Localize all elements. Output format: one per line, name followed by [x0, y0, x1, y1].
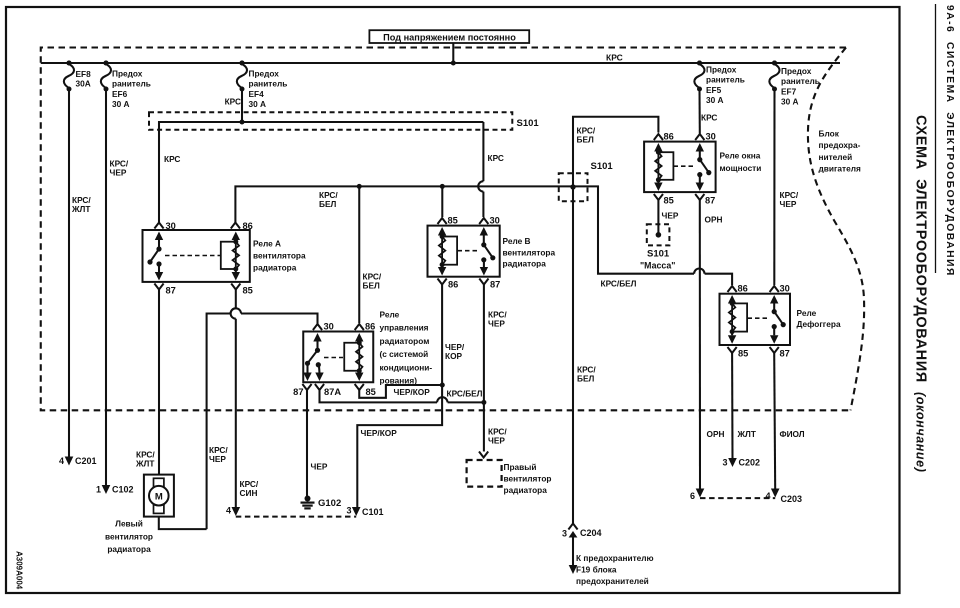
label КРС/БЕЛ at C204 [577, 365, 596, 384]
svg-text:ЖЛТ: ЖЛТ [71, 204, 90, 214]
fuse EF6 30A [101, 61, 111, 92]
svg-text:КРС: КРС [164, 154, 180, 164]
label КРС/СИН [240, 479, 259, 498]
wire ЧЕР window relay pin 85 to S101 масса [657, 200, 659, 235]
label КРС/ЧЕР [110, 159, 129, 178]
svg-text:ЧЕР/КОР: ЧЕР/КОР [394, 387, 431, 397]
svg-text:30: 30 [166, 221, 176, 231]
relay A pin labels [166, 221, 253, 296]
svg-text:С203: С203 [781, 494, 803, 504]
label КРС at EF5 wire [701, 113, 717, 123]
wire КРС/ЧЕР from EF6 to C102 [105, 89, 107, 485]
svg-text:СХЕМА ЭЛЕКТРООБОРУДОВАНИЯ (о: СХЕМА ЭЛЕКТРООБОРУДОВАНИЯ (окончание) [913, 115, 929, 473]
svg-text:КРС: КРС [606, 53, 623, 63]
svg-text:Реле: Реле [797, 308, 817, 318]
splice S101 Масса (dashed square) [647, 224, 670, 245]
label КРС at relay A [164, 154, 180, 164]
svg-text:Предох: Предох [781, 66, 812, 76]
label КРС/БЕЛ at defogger [601, 279, 637, 289]
svg-text:S101: S101 [591, 161, 614, 172]
fuse EF4 30A [237, 61, 247, 92]
svg-text:С204: С204 [580, 528, 602, 538]
svg-text:КОР: КОР [445, 351, 463, 361]
wire КРС/ЖЛТ relay A pin 87 to motor [158, 290, 160, 476]
wire ЧЕР from упр relay pin 87 to ground [306, 390, 308, 497]
svg-text:БЕЛ: БЕЛ [577, 373, 594, 383]
svg-text:4: 4 [59, 456, 64, 466]
svg-text:EF5: EF5 [706, 85, 722, 95]
label S101 [517, 118, 540, 129]
svg-text:управления: управления [380, 323, 429, 333]
connector C204 pin 3 [562, 524, 602, 566]
svg-text:ОРН: ОРН [707, 429, 725, 439]
connector C203 dashed line [700, 497, 775, 499]
svg-text:ранитель: ранитель [706, 75, 745, 85]
label ЖЛТ [737, 429, 756, 439]
junction at S101 square [570, 184, 575, 189]
connector C203 pin 4 [765, 489, 802, 505]
svg-text:ЧЕР: ЧЕР [110, 167, 127, 177]
splice S101 square (dashed) [559, 173, 588, 201]
svg-text:4: 4 [765, 491, 770, 501]
svg-text:ЧЕР: ЧЕР [662, 211, 679, 221]
svg-text:ОРН: ОРН [705, 215, 723, 225]
label ЧЕР/КОР at relay B [445, 342, 465, 361]
label Предохранитель EF5 30 А [706, 65, 745, 106]
label "Левый вентилятор радиатора" [105, 519, 153, 555]
label КРС/ЧЕР lower [488, 427, 507, 446]
svg-text:85: 85 [448, 216, 458, 226]
svg-text:ЧЕР: ЧЕР [209, 454, 226, 464]
svg-text:С202: С202 [739, 458, 761, 468]
svg-text:Предох: Предох [706, 65, 737, 75]
label EF8 30A [76, 69, 92, 88]
bus wire KPC (battery feed) [41, 62, 840, 64]
svg-text:Под напряжением постоянно: Под напряжением постоянно [383, 33, 516, 43]
svg-text:3: 3 [562, 529, 567, 539]
svg-text:30: 30 [490, 216, 500, 226]
label S101 at splice square [591, 161, 614, 172]
connector C102 pin 1 [96, 485, 134, 495]
power window relay (Реле окна мощности) [644, 134, 716, 200]
svg-text:Дефоггера: Дефоггера [797, 319, 841, 329]
svg-text:радиатора: радиатора [107, 544, 151, 554]
fuse EF7 30A [769, 61, 779, 92]
label КРС at relay B [488, 153, 504, 163]
window relay pin labels [664, 132, 716, 206]
label КРС/ЧЕР at EF7 wire [780, 190, 799, 209]
label "Реле А вентилятора радиатора" [253, 239, 306, 273]
fuse EF5 30A [694, 61, 704, 92]
svg-text:радиатора: радиатора [503, 259, 547, 269]
label ЧЕР at G102 [311, 462, 328, 472]
svg-text:СИН: СИН [240, 488, 258, 498]
wire ЧЕР/КОР relay B pin 86 down [357, 285, 445, 508]
label КРС/ЖЛТ [71, 195, 91, 214]
svg-text:предохра-: предохра- [819, 140, 861, 150]
svg-text:ранитель: ранитель [781, 76, 820, 86]
off-page arrow to fuse F19 [569, 565, 578, 574]
svg-text:кондициони-: кондициони- [380, 362, 433, 372]
label КРС/БЕЛ at упр 86 [363, 272, 382, 291]
label "Реле окна мощности" [720, 151, 762, 173]
svg-text:предохранителей: предохранителей [576, 576, 649, 586]
wire КРС/БЕЛ to defogger relay pin 86 [573, 186, 732, 285]
svg-text:ЧЕР: ЧЕР [780, 199, 797, 209]
splice S101 dashed box [149, 112, 512, 130]
svg-text:К предохранителю: К предохранителю [576, 553, 654, 563]
svg-text:85: 85 [664, 196, 674, 206]
control relay pin labels [293, 322, 376, 398]
label "Реле управления радиатором (с системой кондиционирования)" [380, 310, 433, 386]
label ОРН lower [707, 429, 725, 439]
label КРС at EF4 [225, 97, 241, 107]
relay B (Реле В вентилятора радиатора) [428, 218, 500, 285]
svg-text:Реле А: Реле А [253, 239, 281, 249]
control relay (Реле управления радиатором) [302, 324, 373, 390]
fuse EF8 30A [64, 61, 74, 92]
svg-text:4: 4 [226, 506, 231, 516]
label КРС/ЧЕР at riser [209, 445, 228, 464]
svg-text:Правый: Правый [504, 462, 537, 472]
svg-text:87: 87 [705, 196, 715, 206]
svg-text:86: 86 [243, 221, 253, 231]
page title "СХЕМА ЭЛЕКТРООБОРУДОВАНИЯ (окончание)" [913, 115, 929, 473]
svg-text:ФИОЛ: ФИОЛ [780, 429, 805, 439]
connector C101 pin 3 [346, 506, 383, 518]
label КРС/БЕЛ at window relay [577, 126, 596, 145]
wire КРС to relay A pin 30 [158, 121, 160, 223]
svg-text:87: 87 [166, 286, 176, 296]
figure number A309A004 [15, 551, 24, 590]
wire ОРН window relay pin 87 down [699, 200, 701, 490]
svg-text:ЧЕР: ЧЕР [488, 435, 505, 445]
svg-text:86: 86 [448, 280, 458, 290]
svg-text:БЕЛ: БЕЛ [363, 280, 380, 290]
svg-text:КРС/БЕЛ: КРС/БЕЛ [601, 279, 637, 289]
svg-text:87: 87 [293, 387, 303, 397]
wire КРС/СИН relay A pin 85 to C101 [231, 290, 236, 508]
svg-text:30 А: 30 А [112, 99, 130, 109]
svg-text:30: 30 [324, 322, 334, 332]
svg-text:ЖЛТ: ЖЛТ [737, 429, 756, 439]
svg-text:нителей: нителей [819, 152, 853, 162]
svg-text:КРС: КРС [701, 113, 717, 123]
label Предохранитель EF4 30 А [249, 69, 288, 110]
svg-text:ЧЕР: ЧЕР [311, 462, 328, 472]
label ОРН upper [705, 215, 723, 225]
svg-text:С102: С102 [112, 485, 134, 495]
splice S101 internal bus wire [159, 120, 483, 125]
svg-text:30: 30 [780, 284, 790, 294]
label КРС/БЕЛ on horizontal wire [319, 190, 338, 209]
label ЧЕР [662, 211, 679, 221]
label "К предохранителю F19 блока предохранителей" [576, 553, 654, 586]
defogger relay (Реле Дефоггера) [720, 286, 791, 353]
wire from note box to bus [451, 43, 456, 66]
svg-text:F19 блока: F19 блока [576, 565, 617, 575]
connector C202/C203 pin 6 [690, 489, 704, 502]
svg-text:БЕЛ: БЕЛ [577, 134, 594, 144]
svg-text:ЧЕР/КОР: ЧЕР/КОР [361, 428, 398, 438]
svg-text:рования): рования) [380, 376, 418, 386]
wire motor to КРС/ЧЕР riser [159, 517, 207, 530]
svg-text:ЧЕР: ЧЕР [488, 318, 505, 328]
wire КРС from EF4 to splice S101 [241, 89, 243, 122]
ground G102 [301, 496, 342, 510]
svg-text:М: М [155, 492, 163, 503]
svg-text:вентилятора: вентилятора [253, 251, 306, 261]
svg-text:87: 87 [780, 349, 790, 359]
svg-text:Предох: Предох [112, 69, 143, 79]
svg-text:радиатора: радиатора [253, 263, 297, 273]
wire КРС/БЕЛ down to упр relay pin 86 [358, 186, 360, 323]
wire КРС/ЧЕР relay B pin 87 to right fan [483, 285, 485, 452]
svg-text:87: 87 [490, 280, 500, 290]
pin chevron into right fan [479, 452, 488, 458]
connector C202 pin 3 [722, 458, 760, 468]
svg-text:86: 86 [738, 284, 748, 294]
svg-text:мощности: мощности [720, 163, 762, 173]
svg-text:ранитель: ранитель [112, 79, 151, 89]
svg-text:EF4: EF4 [249, 89, 265, 99]
label Предохранитель EF6 30 А [112, 69, 151, 110]
svg-text:Левый: Левый [115, 519, 143, 529]
label КРС/ЖЛТ at motor [135, 450, 155, 469]
svg-text:30А: 30А [76, 78, 91, 88]
connector C201 pin 4 [59, 456, 97, 466]
svg-text:вентилятора: вентилятора [503, 247, 556, 257]
svg-text:S101: S101 [517, 118, 540, 129]
svg-text:С101: С101 [362, 507, 384, 517]
svg-text:вентилятор: вентилятор [504, 474, 552, 484]
right radiator fan (dashed box) [467, 460, 502, 487]
wire КРС to relay B pin 30 [478, 122, 483, 217]
svg-text:КРС: КРС [488, 153, 504, 163]
svg-text:86: 86 [365, 322, 375, 332]
svg-text:30 А: 30 А [249, 99, 267, 109]
wire ФИОЛ defogger pin 87 to C203 [774, 353, 775, 490]
svg-text:EF6: EF6 [112, 89, 128, 99]
label "Блок предохранителей двигателя" [819, 129, 861, 174]
wire КРС/ЖЛТ from EF8 to C201 [68, 89, 70, 457]
svg-text:ранитель: ранитель [249, 79, 288, 89]
svg-text:Предох: Предох [249, 69, 280, 79]
wire КРС/ЧЕР riser to упр relay pin 30 [207, 308, 318, 529]
svg-text:9А-6 СИСТЕМА ЭЛЕКТРООБОРУДОВ: 9А-6 СИСТЕМА ЭЛЕКТРООБОРУДОВАНИЯ [944, 5, 955, 277]
svg-text:1: 1 [96, 485, 101, 495]
svg-text:Реле В: Реле В [503, 236, 531, 246]
svg-text:G102: G102 [318, 498, 341, 509]
wire КРС/БЕЛ down to C204 [572, 187, 574, 524]
svg-text:"Масса": "Масса" [640, 261, 675, 271]
svg-text:С201: С201 [75, 456, 97, 466]
defogger relay pin labels [738, 284, 790, 359]
svg-text:S101: S101 [647, 249, 670, 260]
svg-text:радиатора: радиатора [504, 485, 548, 495]
svg-text:КРС: КРС [225, 97, 241, 107]
label S101 "Масса" [640, 249, 675, 271]
svg-text:85: 85 [243, 286, 253, 296]
svg-text:30: 30 [706, 132, 716, 142]
junction dots on bus [67, 61, 778, 66]
connector C101 dashed line [236, 516, 356, 518]
svg-text:EF7: EF7 [781, 86, 797, 96]
engine fuse block boundary (dashed) [41, 48, 864, 411]
note box "Под напряжением постоянно" [369, 30, 529, 43]
label ЧЕР/КОР above C101 [361, 428, 398, 438]
label ЧЕР/КОР at упр 85 [394, 387, 431, 397]
wire КРС/БЕЛ to window relay pin 86 [573, 117, 658, 187]
label КРС/БЕЛ near hop [447, 389, 483, 399]
svg-text:6: 6 [690, 491, 695, 501]
svg-text:A309A004: A309A004 [15, 551, 24, 590]
wire КРС/ЧЕР from EF7 to defogger pin 30 [773, 90, 775, 285]
svg-text:Блок: Блок [819, 129, 840, 139]
relay B pin labels [448, 216, 501, 290]
wire down to relay B pin 85 [441, 186, 443, 217]
page header "9A-6 СИСТЕМА ЭЛЕКТРООБОРУДОВАНИЯ" [936, 4, 956, 277]
wire from упр relay pin 87A to КРС/ЧЕР wire [320, 390, 487, 405]
svg-text:85: 85 [738, 349, 748, 359]
wire КРС/БЕЛ horizontal [235, 184, 573, 223]
svg-text:30 А: 30 А [706, 95, 724, 105]
wire ЖЛТ defogger pin 85 to C202 [731, 353, 733, 458]
svg-text:Реле окна: Реле окна [720, 151, 761, 161]
label КРС/ЧЕР upper [488, 310, 507, 329]
svg-text:86: 86 [664, 132, 674, 142]
svg-text:87А: 87А [324, 387, 341, 397]
svg-text:КРС/БЕЛ: КРС/БЕЛ [447, 389, 483, 399]
svg-text:85: 85 [366, 387, 376, 397]
relay A (Реле А вентилятора радиатора) [143, 223, 250, 290]
label "Реле В вентилятора радиатора" [503, 236, 556, 269]
svg-text:Реле: Реле [380, 310, 400, 320]
label "Реле Дефоггера" [797, 308, 841, 329]
label Предохранитель EF7 30 А [781, 66, 820, 107]
svg-text:БЕЛ: БЕЛ [319, 199, 336, 209]
svg-text:ЖЛТ: ЖЛТ [135, 458, 154, 468]
connector C101 pin 4 [226, 506, 240, 517]
svg-text:3: 3 [346, 506, 351, 516]
wire КРС from EF5 to window relay pin 30 [698, 89, 700, 134]
svg-text:30 А: 30 А [781, 97, 799, 107]
svg-text:радиатором: радиатором [380, 336, 430, 346]
wire ЧЕР/КОР from упр relay pin 85 [359, 385, 442, 398]
svg-text:(с системой: (с системой [380, 349, 429, 359]
svg-text:двигателя: двигателя [819, 164, 861, 174]
motor M (левый вентилятор радиатора) [144, 475, 174, 517]
svg-text:вентилятор: вентилятор [105, 531, 153, 541]
svg-text:3: 3 [722, 458, 727, 468]
label КРС on bus [606, 53, 623, 63]
label "Правый вентилятор радиатора" [504, 462, 552, 495]
label ФИОЛ [780, 429, 805, 439]
